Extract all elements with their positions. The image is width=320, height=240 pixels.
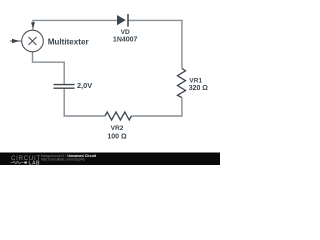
svg-text:Multitexter: Multitexter — [48, 37, 90, 46]
multiplier: left input arrow (pointing right) — [12, 39, 19, 43]
wire: diode cathode to top-right corner and down right side — [128, 20, 182, 68]
footer: logo resistor zigzag — [11, 161, 24, 164]
resistor VR1 (vertical zigzag) — [178, 68, 186, 97]
svg-text:VR1: VR1 — [189, 78, 202, 85]
multiplier: top input arrow (pointing down) — [31, 22, 35, 28]
wire: left input stub into multiplier — [10, 40, 23, 42]
svg-text:VD: VD — [121, 29, 130, 36]
wire: VR1 bottom to bottom-right corner to VR2 right — [131, 98, 182, 116]
diode VD: cathode bar — [127, 14, 129, 27]
multiplier "Multitexter": X symbol — [29, 37, 37, 45]
multiplier "Multitexter": circle body — [22, 30, 44, 52]
svg-text:VR2: VR2 — [111, 125, 124, 132]
wire: capacitor top up and left to multiplier bottom — [33, 52, 65, 85]
capacitor: bottom plate — [54, 87, 75, 89]
capacitor: top plate — [54, 84, 75, 86]
wire: top net from multiplier top to diode anode — [33, 20, 118, 30]
svg-text:LAB: LAB — [29, 160, 40, 165]
svg-text:320 Ω: 320 Ω — [189, 85, 209, 92]
wire: VR2 left to bottom-left corner up to capacitor bottom — [64, 88, 105, 116]
footer: black attribution bar — [0, 153, 220, 166]
svg-text:http://circuitlab.com/c9q343: http://circuitlab.com/c9q343 — [41, 157, 85, 161]
resistor VR2 (horizontal zigzag) — [105, 112, 131, 120]
svg-text:1N4007: 1N4007 — [113, 36, 138, 43]
svg-text:100 Ω: 100 Ω — [107, 133, 127, 140]
svg-text:2,0V: 2,0V — [77, 81, 92, 90]
diode VD: anode triangle — [117, 15, 126, 25]
footer: logo LED square — [24, 162, 27, 164]
